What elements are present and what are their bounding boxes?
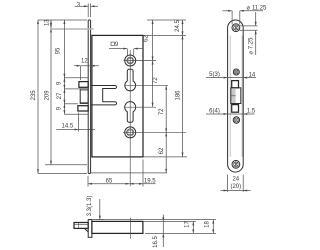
svg-text:1.5: 1.5 xyxy=(247,108,256,114)
svg-text:9: 9 xyxy=(57,106,63,110)
screw hole 2 xyxy=(233,69,239,75)
lock case rectangle xyxy=(92,35,143,156)
dim 16.5 xyxy=(145,215,166,248)
dim 14.5 (deadbolt protrusion) xyxy=(56,113,95,132)
dim chain 95 / 9 / 27 / 9 (left) xyxy=(55,20,88,114)
follower axis centerline (top view) xyxy=(129,218,131,239)
faceplate (top view) xyxy=(88,220,92,238)
case (top view) xyxy=(92,221,143,233)
svg-text:72: 72 xyxy=(159,108,165,115)
dim 235 (left) xyxy=(31,20,87,173)
svg-text:13: 13 xyxy=(45,19,51,26)
label 1.5 xyxy=(243,108,256,115)
dim 62 (bottom right) xyxy=(159,132,167,173)
svg-text:⌀ 7.25: ⌀ 7.25 xyxy=(249,37,255,55)
follower U2 (bottom spindle hole) xyxy=(125,127,136,138)
dim 12 (latch protrusion) xyxy=(74,59,99,81)
dim 3.3(1.3) xyxy=(87,196,104,220)
svg-text:16.5: 16.5 xyxy=(153,236,159,248)
latch window main (with latch visible) xyxy=(231,88,241,104)
right extension plate bottom xyxy=(91,172,167,174)
screw hole 3 xyxy=(233,117,239,123)
dim 24.5 / 186 line xyxy=(175,20,184,157)
vertical centerline through cutouts xyxy=(129,50,131,186)
svg-text:3.3(1.3): 3.3(1.3) xyxy=(87,196,93,217)
dim 13 / 209 (left) xyxy=(45,19,87,165)
svg-text:24.5: 24.5 xyxy=(175,20,181,32)
internal fork (deadbolt slide) xyxy=(91,86,117,105)
right extension line (plate top) xyxy=(147,19,186,21)
dim Ø7.25 xyxy=(240,12,258,55)
svg-text:(20): (20) xyxy=(230,184,241,190)
gray projection line (screw centre) xyxy=(52,27,94,29)
dim 3 (faceplate thickness) top xyxy=(75,2,98,17)
svg-text:9: 9 xyxy=(57,81,63,85)
svg-text:9: 9 xyxy=(115,42,119,48)
svg-text:62: 62 xyxy=(159,147,165,154)
dim 17 xyxy=(143,221,196,234)
euro profile keyhole 2 (neck down) xyxy=(125,102,136,123)
latch window upper square xyxy=(232,81,239,88)
euro profile keyhole 1 (inverted, neck up) xyxy=(125,69,136,91)
square 9 label (follower square) xyxy=(109,42,143,56)
svg-text:27: 27 xyxy=(57,92,63,99)
dim 62 (top right) xyxy=(144,20,154,107)
faceplate (side view, main) xyxy=(88,20,90,173)
svg-text:62: 62 xyxy=(144,35,150,42)
right extension case bottom xyxy=(144,156,188,158)
svg-text:12: 12 xyxy=(81,59,88,65)
dim Ø11.25 xyxy=(223,6,268,25)
svg-text:3: 3 xyxy=(77,2,81,8)
auxiliary block between latch and deadbolt xyxy=(80,89,88,104)
svg-text:95: 95 xyxy=(55,47,61,54)
latch bolt head xyxy=(79,82,88,88)
svg-text:65: 65 xyxy=(106,179,113,185)
svg-text:18: 18 xyxy=(204,221,210,228)
deadbolt head xyxy=(78,106,88,111)
svg-text:72: 72 xyxy=(153,77,159,84)
svg-text:24: 24 xyxy=(232,177,239,183)
screw hole top xyxy=(232,24,240,32)
keyhole2 centerline xyxy=(124,106,156,108)
svg-text:6(4): 6(4) xyxy=(209,108,220,114)
label 5(3) xyxy=(206,72,256,78)
backplate outline xyxy=(228,20,244,172)
dim 18 xyxy=(92,220,216,234)
screw hole bottom xyxy=(232,160,240,168)
svg-text:209: 209 xyxy=(45,90,51,101)
keyhole1 centerline xyxy=(124,85,168,87)
deadbolt window xyxy=(232,105,239,113)
follower U1 (top spindle hole) xyxy=(125,55,136,66)
label 14 xyxy=(243,73,256,79)
follower1 centerline xyxy=(124,60,157,62)
follower2 centerline xyxy=(123,131,186,133)
hidden case edges (gray) xyxy=(229,36,231,157)
svg-text:235: 235 xyxy=(31,90,37,101)
latch bolt (top view) xyxy=(74,223,89,233)
svg-text:14: 14 xyxy=(249,73,256,79)
label 6(4) xyxy=(206,108,255,115)
right extension case top xyxy=(144,34,187,36)
dim 24 (20) bottom of backplate xyxy=(221,175,251,193)
dim 72 (second) xyxy=(159,86,167,133)
svg-text:19.5: 19.5 xyxy=(144,179,156,185)
svg-text:17: 17 xyxy=(184,221,190,228)
dim 72 (first) xyxy=(153,77,159,84)
svg-text:14.5: 14.5 xyxy=(62,123,74,129)
svg-text:186: 186 xyxy=(176,90,182,101)
dim 65 / 19.5 (below main view) xyxy=(88,160,156,187)
